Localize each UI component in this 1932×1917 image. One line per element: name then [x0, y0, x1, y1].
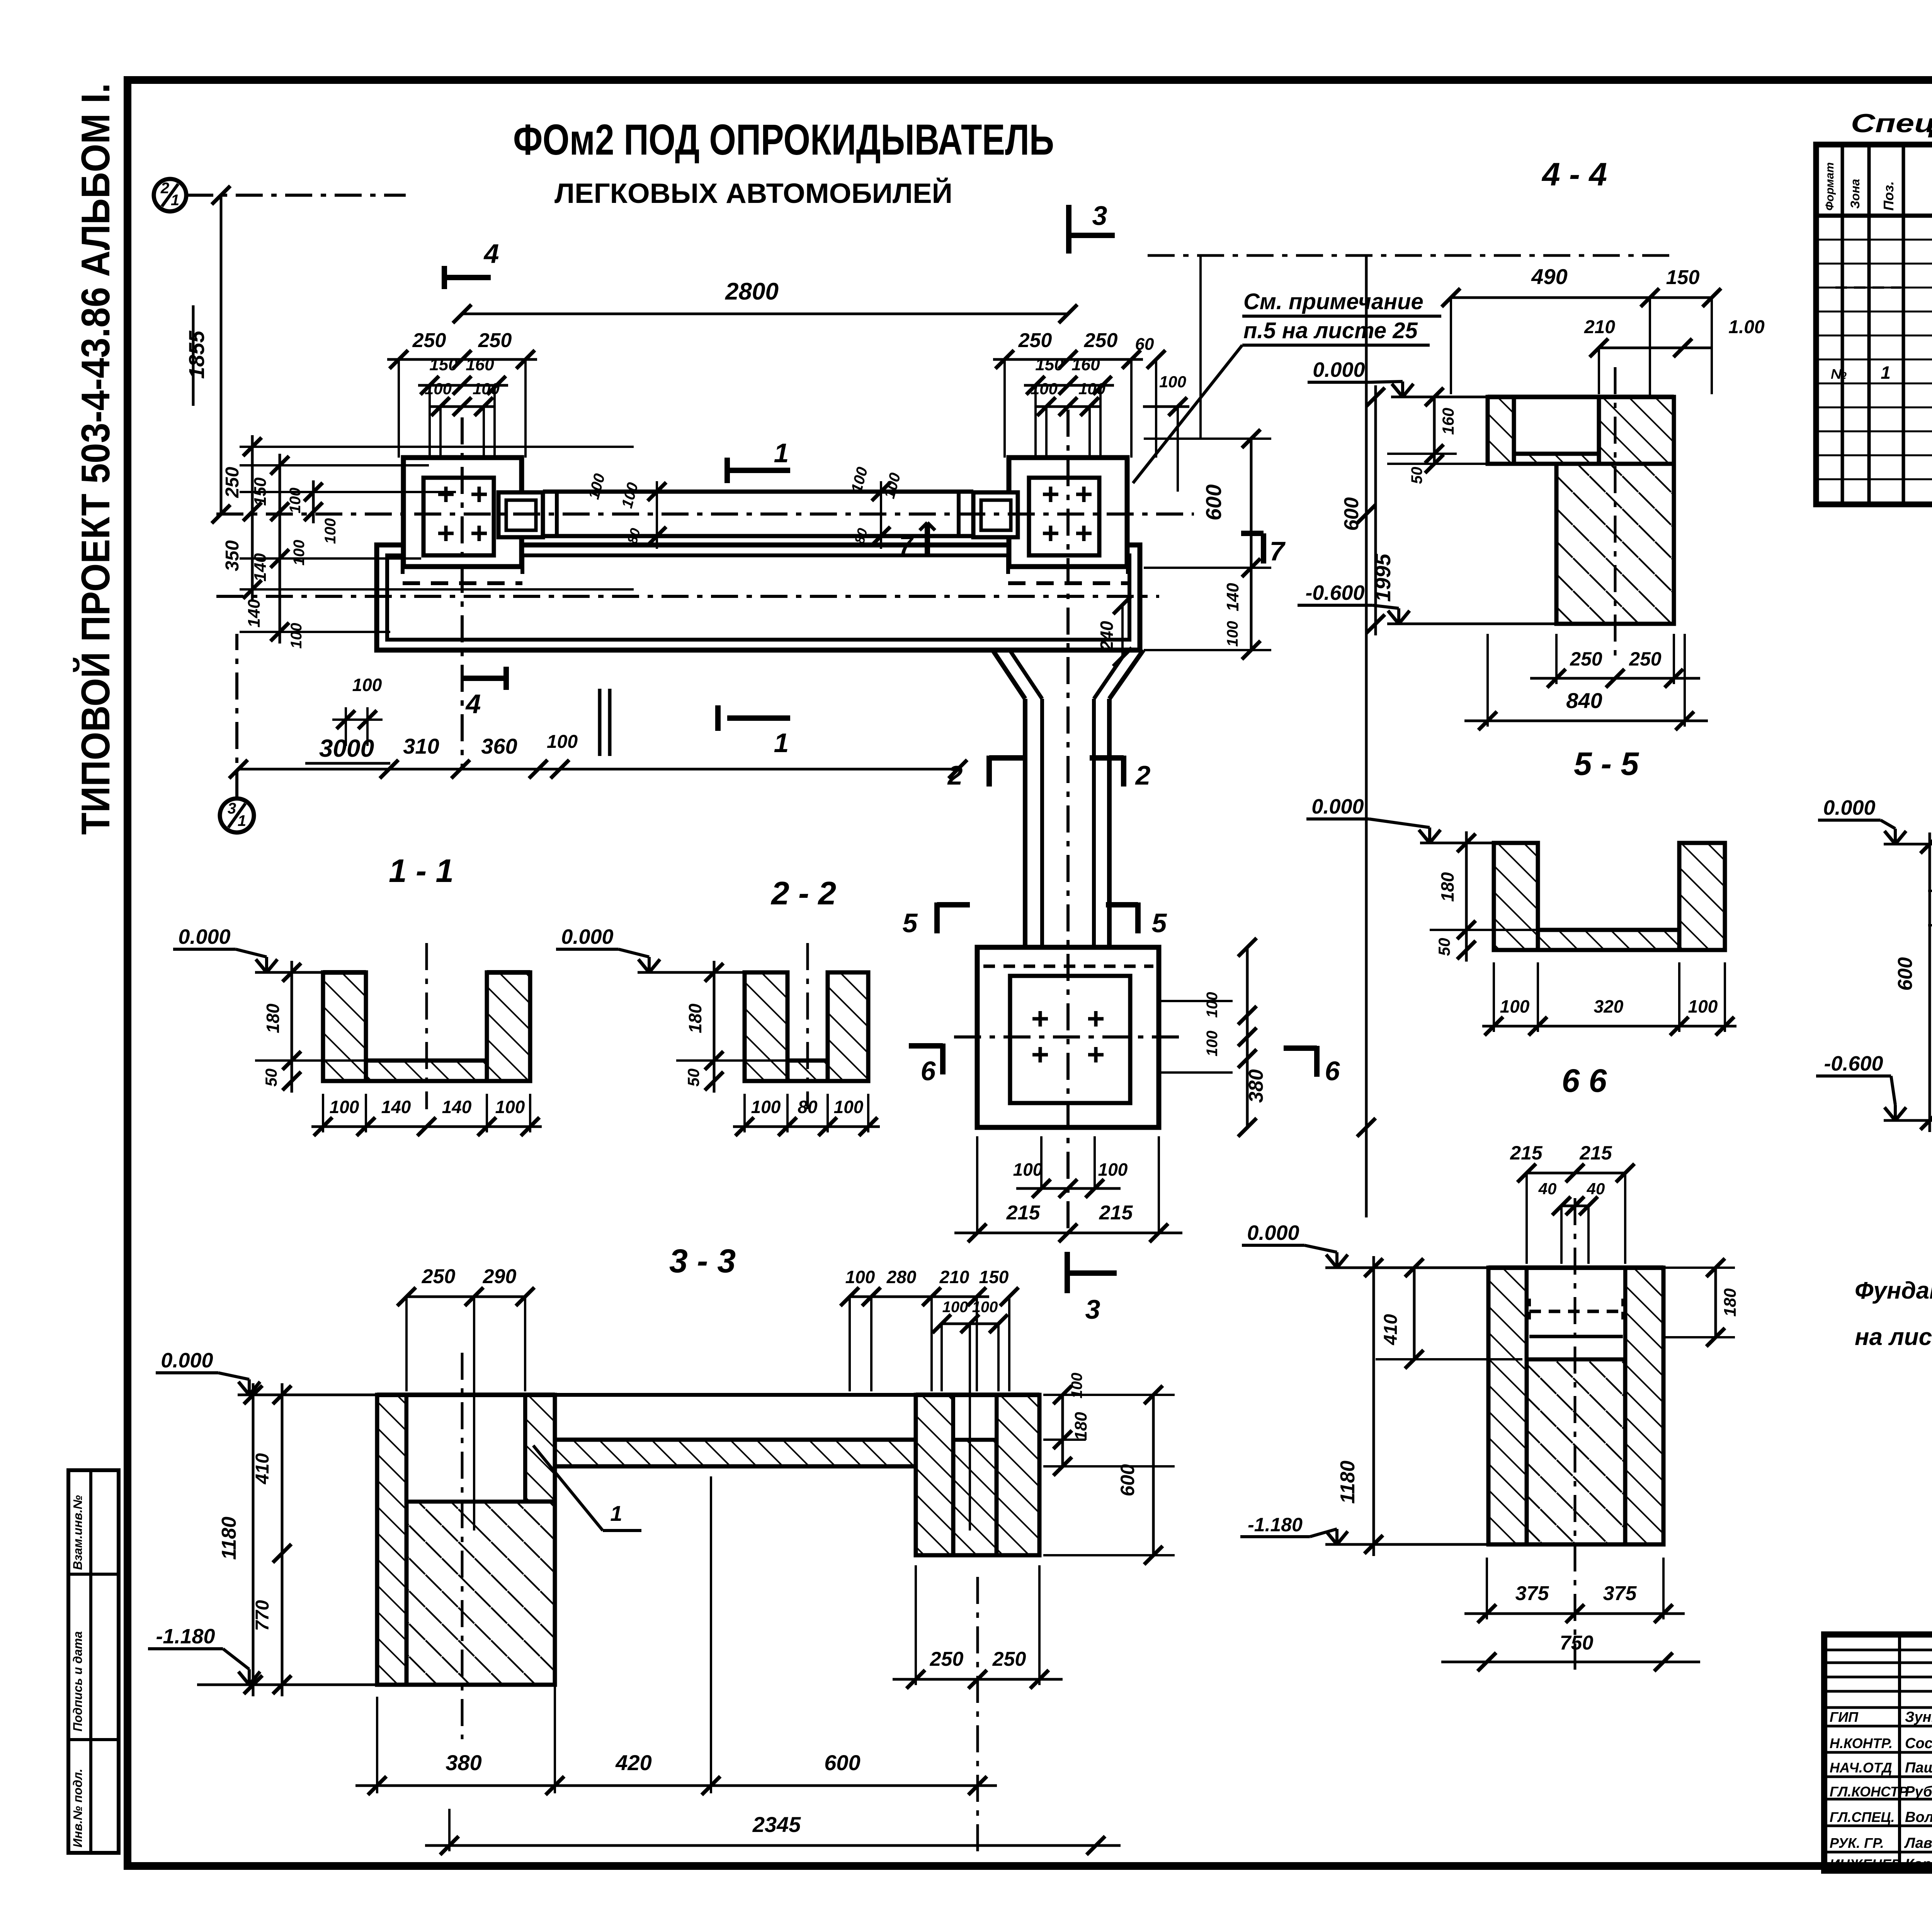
svg-text:380: 380	[1245, 1069, 1267, 1103]
svg-text:180: 180	[1721, 1288, 1740, 1317]
svg-text:2345: 2345	[752, 1812, 801, 1837]
svg-text:100: 100	[1013, 1159, 1043, 1180]
svg-text:Инв.№ подл.: Инв.№ подл.	[71, 1769, 85, 1847]
svg-text:2 - 2: 2 - 2	[770, 875, 836, 911]
svg-text:100: 100	[1204, 992, 1221, 1018]
svg-text:420: 420	[615, 1750, 651, 1775]
svg-text:100: 100	[291, 540, 308, 566]
svg-text:Поз.: Поз.	[1881, 181, 1896, 211]
svg-text:Волков: Волков	[1905, 1809, 1932, 1825]
svg-text:250: 250	[422, 1265, 456, 1288]
svg-text:250: 250	[222, 467, 243, 498]
svg-text:250: 250	[1018, 329, 1052, 352]
svg-text:215: 215	[1510, 1142, 1543, 1164]
svg-text:5: 5	[903, 908, 918, 938]
svg-text:0.000: 0.000	[161, 1349, 213, 1372]
svg-text:180: 180	[685, 1003, 705, 1033]
svg-text:140: 140	[442, 1097, 472, 1117]
svg-text:150: 150	[1035, 355, 1064, 374]
svg-text:Лавренко: Лавренко	[1904, 1835, 1932, 1851]
svg-text:1180: 1180	[1337, 1461, 1359, 1504]
svg-text:РУК. ГР.: РУК. ГР.	[1830, 1835, 1884, 1851]
svg-text:600: 600	[1340, 497, 1363, 531]
svg-text:490: 490	[1531, 264, 1567, 289]
svg-text:280: 280	[886, 1267, 917, 1287]
svg-text:100: 100	[1500, 996, 1530, 1016]
svg-text:250: 250	[1629, 648, 1662, 670]
svg-text:40: 40	[1587, 1180, 1605, 1198]
svg-text:100: 100	[1224, 621, 1241, 647]
svg-text:7: 7	[1270, 536, 1286, 566]
svg-text:Сосновский: Сосновский	[1905, 1735, 1932, 1752]
svg-text:150: 150	[429, 355, 458, 374]
svg-text:40: 40	[1538, 1180, 1557, 1198]
svg-text:-1.180: -1.180	[156, 1625, 215, 1648]
svg-text:0.000: 0.000	[1313, 358, 1365, 381]
svg-text:380: 380	[446, 1750, 481, 1775]
svg-text:4 - 4: 4 - 4	[1541, 156, 1607, 192]
svg-text:6 6: 6 6	[1562, 1062, 1607, 1099]
svg-text:ГИП: ГИП	[1830, 1709, 1859, 1725]
svg-text:Пашинцев: Пашинцев	[1905, 1760, 1932, 1776]
svg-text:0.000: 0.000	[1311, 795, 1364, 818]
svg-text:№: №	[1831, 366, 1847, 382]
svg-text:3: 3	[1085, 1294, 1100, 1325]
svg-text:Взам.инв.№: Взам.инв.№	[71, 1495, 85, 1570]
svg-text:180: 180	[263, 1003, 283, 1033]
svg-text:100: 100	[288, 623, 305, 649]
svg-text:250: 250	[992, 1648, 1026, 1670]
svg-text:215: 215	[1006, 1202, 1041, 1224]
svg-text:п.5 на листе 25: п.5 на листе 25	[1243, 318, 1418, 343]
svg-text:375: 375	[1603, 1582, 1637, 1605]
svg-text:7: 7	[899, 531, 914, 559]
svg-text:100: 100	[1204, 1031, 1221, 1057]
svg-text:1: 1	[610, 1501, 622, 1525]
svg-text:840: 840	[1566, 688, 1602, 713]
svg-text:100: 100	[352, 675, 382, 695]
svg-text:320: 320	[1594, 996, 1624, 1016]
svg-text:ИНЖЕНЕР: ИНЖЕНЕР	[1830, 1856, 1901, 1872]
svg-text:140: 140	[1223, 583, 1242, 611]
svg-text:Формат: Формат	[1823, 162, 1836, 211]
svg-text:См. примечание: См. примечание	[1243, 289, 1423, 314]
svg-text:600: 600	[1201, 484, 1226, 520]
svg-text:410: 410	[252, 1453, 273, 1485]
svg-text:0.000: 0.000	[178, 925, 230, 948]
svg-text:240: 240	[1097, 621, 1117, 651]
svg-text:100: 100	[845, 1267, 875, 1287]
svg-text:-1.180: -1.180	[1248, 1514, 1303, 1536]
svg-text:1 - 1: 1 - 1	[389, 853, 454, 889]
svg-text:Зона: Зона	[1848, 179, 1862, 209]
svg-text:290: 290	[483, 1265, 517, 1288]
svg-text:0.000: 0.000	[1247, 1221, 1299, 1245]
svg-text:ГЛ.КОНСТР: ГЛ.КОНСТР	[1830, 1784, 1908, 1800]
svg-text:1: 1	[1881, 363, 1891, 383]
svg-text:1.00: 1.00	[1728, 317, 1765, 337]
svg-text:100: 100	[1159, 373, 1186, 391]
svg-text:1180: 1180	[218, 1517, 240, 1560]
svg-text:5: 5	[1152, 908, 1167, 938]
svg-text:2800: 2800	[725, 278, 779, 305]
svg-text:150: 150	[979, 1267, 1009, 1287]
svg-text:1: 1	[238, 812, 246, 829]
svg-text:215: 215	[1579, 1142, 1612, 1164]
svg-text:140: 140	[381, 1097, 411, 1117]
svg-text:360: 360	[481, 734, 517, 758]
svg-text:2: 2	[160, 180, 169, 197]
svg-text:60: 60	[1135, 335, 1154, 354]
svg-text:Н.КОНТР.: Н.КОНТР.	[1830, 1735, 1893, 1751]
svg-text:2: 2	[947, 760, 963, 790]
svg-text:3: 3	[1092, 201, 1107, 231]
svg-text:250: 250	[478, 329, 512, 352]
svg-text:50: 50	[684, 1069, 702, 1087]
svg-text:210: 210	[939, 1267, 969, 1287]
svg-text:350: 350	[222, 540, 243, 571]
svg-text:5 - 5: 5 - 5	[1574, 746, 1639, 782]
svg-text:на листе: на листе	[1855, 1324, 1932, 1350]
svg-text:1: 1	[171, 192, 179, 209]
svg-text:3 - 3: 3 - 3	[669, 1243, 736, 1280]
svg-text:ЛЕГКОВЫХ АВТОМОБИЛЕЙ: ЛЕГКОВЫХ АВТОМОБИЛЕЙ	[554, 177, 952, 209]
svg-text:100: 100	[330, 1097, 359, 1117]
svg-text:100: 100	[834, 1097, 864, 1117]
svg-text:2: 2	[1135, 760, 1151, 790]
svg-text:ТИПОВОЙ ПРОЕКТ 503-4-43.86 АЛЬ: ТИПОВОЙ ПРОЕКТ 503-4-43.86 АЛЬБОМ I.	[73, 83, 118, 835]
svg-text:НАЧ.ОТД: НАЧ.ОТД	[1830, 1760, 1892, 1776]
svg-text:Рубан: Рубан	[1905, 1784, 1932, 1800]
svg-text:180: 180	[1071, 1412, 1090, 1440]
svg-text:150: 150	[1666, 266, 1700, 289]
svg-text:140: 140	[245, 599, 264, 628]
svg-text:Подпись и дата: Подпись и дата	[71, 1631, 85, 1731]
svg-text:6: 6	[921, 1056, 936, 1086]
svg-text:250: 250	[412, 329, 446, 352]
svg-text:160: 160	[1439, 408, 1457, 435]
svg-text:100: 100	[751, 1097, 781, 1117]
svg-text:100: 100	[322, 518, 339, 544]
svg-text:215: 215	[1099, 1202, 1133, 1224]
svg-text:50: 50	[1435, 938, 1453, 956]
svg-text:ФОм2 ПОД ОПРОКИДЫВАТЕЛЬ: ФОм2 ПОД ОПРОКИДЫВАТЕЛЬ	[513, 116, 1054, 164]
svg-text:100: 100	[942, 1299, 968, 1316]
svg-text:1: 1	[774, 438, 789, 468]
svg-text:1995: 1995	[1371, 553, 1395, 602]
svg-text:600: 600	[1894, 957, 1917, 991]
svg-text:250: 250	[1084, 329, 1118, 352]
svg-text:600: 600	[1117, 1464, 1138, 1496]
svg-text:4: 4	[465, 689, 481, 719]
svg-text:770: 770	[252, 1600, 273, 1631]
svg-text:100: 100	[1098, 1159, 1128, 1180]
svg-text:140: 140	[251, 553, 270, 582]
svg-text:-0.600: -0.600	[1824, 1052, 1883, 1075]
svg-text:0.000: 0.000	[1823, 796, 1875, 819]
svg-text:ГЛ.СПЕЦ.: ГЛ.СПЕЦ.	[1830, 1809, 1895, 1825]
svg-text:160: 160	[466, 355, 494, 374]
svg-text:3: 3	[228, 800, 236, 817]
svg-text:375: 375	[1515, 1582, 1549, 1605]
svg-text:50: 50	[262, 1069, 280, 1087]
svg-text:Фундамент: Фундамент	[1855, 1277, 1932, 1304]
svg-text:310: 310	[403, 734, 439, 758]
svg-text:600: 600	[824, 1750, 860, 1775]
svg-text:1855: 1855	[184, 330, 209, 379]
svg-text:100: 100	[547, 732, 578, 752]
svg-text:410: 410	[1381, 1314, 1401, 1345]
svg-text:4: 4	[483, 238, 499, 269]
svg-text:100: 100	[1688, 996, 1718, 1016]
svg-text:160: 160	[1071, 355, 1100, 374]
svg-text:Спецификация элементов на: Спецификация элементов на ФОм 2	[1851, 109, 1932, 138]
svg-text:180: 180	[1437, 872, 1458, 902]
svg-text:250: 250	[930, 1648, 964, 1670]
svg-text:1: 1	[774, 728, 789, 758]
svg-text:210: 210	[1584, 317, 1615, 337]
svg-text:Коротких: Коротких	[1905, 1856, 1932, 1873]
svg-text:750: 750	[1560, 1632, 1594, 1654]
svg-text:50: 50	[1408, 467, 1425, 484]
svg-text:Зуннер: Зуннер	[1905, 1709, 1932, 1725]
svg-text:-0.600: -0.600	[1305, 581, 1364, 604]
svg-text:0.000: 0.000	[561, 925, 613, 948]
svg-text:100: 100	[495, 1097, 525, 1117]
svg-text:250: 250	[1570, 648, 1602, 670]
svg-text:6: 6	[1325, 1056, 1340, 1086]
